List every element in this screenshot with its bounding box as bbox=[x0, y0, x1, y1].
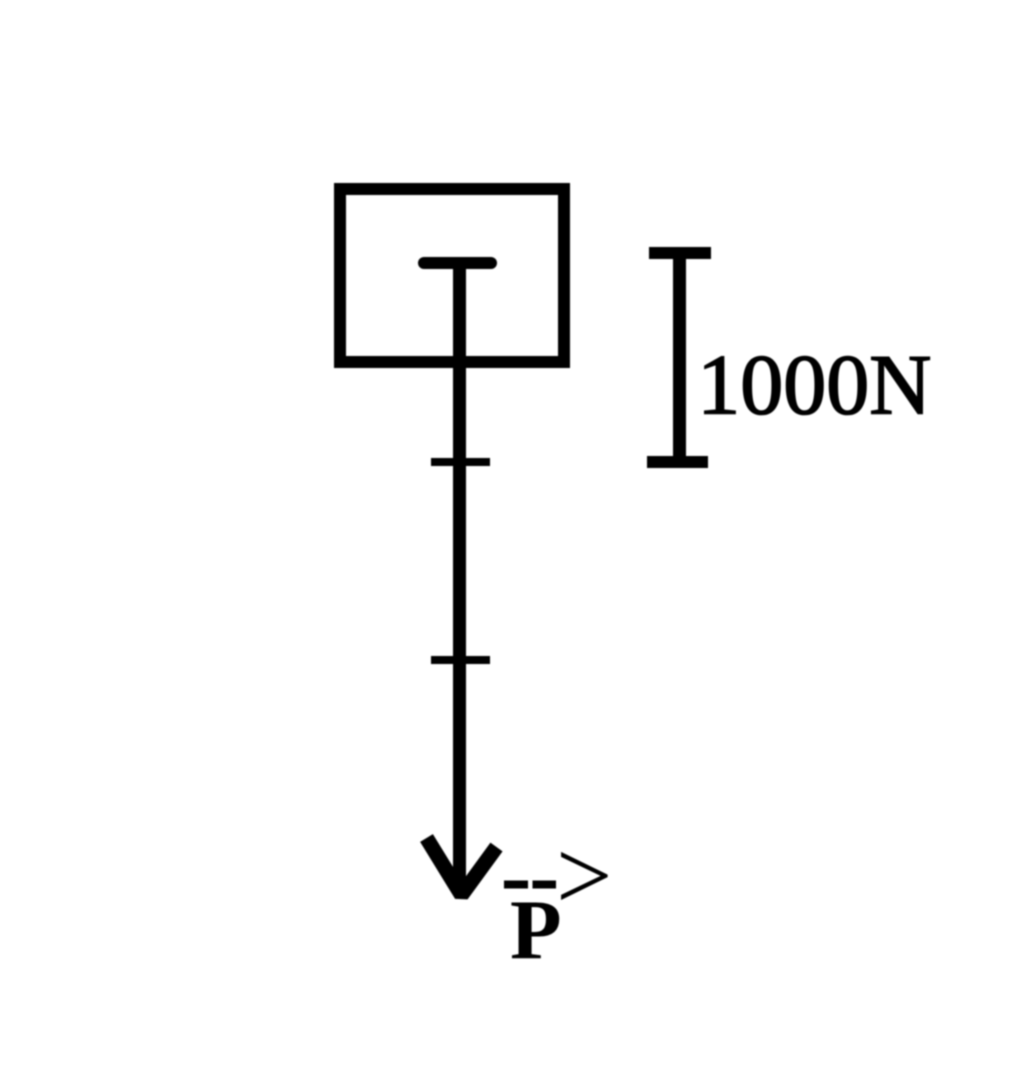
vector dash 1 bbox=[504, 881, 528, 889]
svg-text:>: > bbox=[556, 820, 612, 931]
svg-text:1000N: 1000N bbox=[697, 337, 931, 433]
vector dash 2 bbox=[533, 881, 557, 889]
block (rectangle body) bbox=[340, 189, 564, 362]
scale bar bottom cap bbox=[647, 456, 708, 468]
force line (vertical shaft) bbox=[453, 263, 466, 895]
tick mark lower bbox=[431, 656, 490, 664]
arrowhead bbox=[427, 838, 497, 895]
handle bar (T crossbar inside block) bbox=[424, 257, 491, 269]
svg-text:P: P bbox=[510, 885, 562, 978]
scale bar stem bbox=[673, 253, 686, 462]
scale bar top cap bbox=[649, 247, 711, 259]
tick mark upper bbox=[431, 458, 490, 466]
